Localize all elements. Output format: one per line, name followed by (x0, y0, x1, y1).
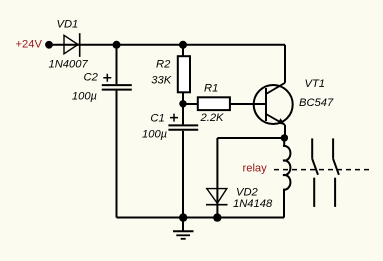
wire VD2 top lead (216, 138, 218, 218)
wire R2 bottom lead (182, 92, 184, 104)
wire R1 left lead (183, 103, 198, 105)
junction top rail / C2 (113, 41, 121, 49)
capacitor C2 (102, 85, 132, 90)
switch contact 1 (312, 138, 318, 207)
junction ground node (179, 213, 187, 221)
junction VD2 node (213, 213, 221, 221)
wire R2 top lead (182, 45, 184, 57)
svg-text:VD2: VD2 (236, 187, 259, 199)
svg-text:100µ: 100µ (142, 128, 167, 140)
svg-text:33K: 33K (151, 75, 171, 87)
svg-text:relay: relay (243, 163, 268, 175)
svg-text:R1: R1 (204, 83, 218, 95)
junction R2 / R1 / C1 (179, 100, 186, 107)
svg-text:C2: C2 (84, 71, 99, 83)
svg-text:100µ: 100µ (72, 90, 97, 102)
svg-text:2.2K: 2.2K (200, 112, 225, 124)
wire top rail left segment (49, 44, 81, 46)
diode VD1 (64, 33, 80, 57)
svg-text:BC547: BC547 (299, 97, 334, 109)
switch contact 2 (333, 138, 339, 207)
inductor relay coil (283, 146, 290, 190)
svg-text:1N4148: 1N4148 (233, 198, 273, 210)
resistor R1 (198, 97, 230, 110)
wire emitter to VD2 (217, 137, 284, 139)
wire C1 bottom lead (182, 131, 184, 218)
junction top rail / R2 (179, 41, 187, 49)
svg-text:VT1: VT1 (305, 78, 326, 90)
capacitor C1 (168, 125, 198, 129)
svg-text:+24V: +24V (16, 38, 43, 50)
diode VD2 (206, 189, 228, 205)
wire C2 bottom lead (116, 91, 118, 218)
wire collector lead (284, 45, 286, 83)
node input terminal dot (45, 41, 53, 49)
svg-text:C1: C1 (150, 112, 164, 124)
junction emitter node (281, 134, 288, 141)
wire bottom rail (117, 217, 285, 219)
svg-text:1N4007: 1N4007 (49, 59, 89, 71)
wire top rail (80, 44, 286, 46)
wire C1 top lead (182, 104, 184, 124)
wire relay bottom lead (283, 189, 285, 218)
wire relay top lead (283, 138, 285, 147)
resistor R2 (178, 56, 190, 92)
wire dashed actuation link (274, 169, 369, 171)
svg-text:VD1: VD1 (57, 18, 79, 30)
wire emitter lead (284, 125, 286, 138)
svg-text:R2: R2 (156, 58, 171, 70)
transistor VT1 (254, 83, 293, 125)
ground (173, 218, 194, 239)
wire base lead (231, 103, 267, 105)
wire C2 top lead (116, 45, 118, 84)
